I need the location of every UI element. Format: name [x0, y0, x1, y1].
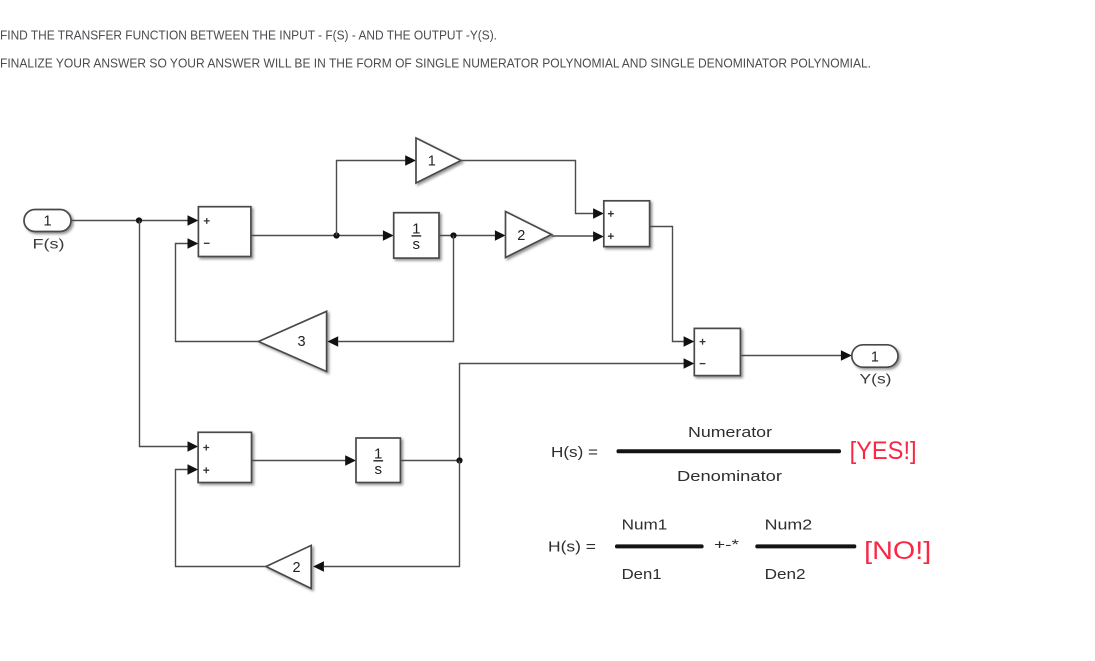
- wire G1 output to sum S2 first plus: [461, 161, 594, 214]
- wire F(s) to sum S1: [71, 220, 188, 222]
- wire G4 output to S4 second plus: [176, 470, 267, 567]
- svg-text:Y(s): Y(s): [860, 371, 892, 387]
- svg-text:3: 3: [297, 334, 305, 350]
- svg-text:Denominator: Denominator: [677, 468, 782, 485]
- wire I1 output to gain G2: [439, 235, 495, 237]
- svg-text:[YES!]: [YES!]: [850, 437, 917, 465]
- svg-text:Den1: Den1: [622, 566, 662, 583]
- svg-text:H(s) =: H(s) =: [551, 444, 598, 461]
- sum block S2: [604, 201, 650, 247]
- svg-text:F(s): F(s): [33, 236, 65, 252]
- arrowhead into S2 first plus: [593, 208, 604, 218]
- wire branch up to gain G1: [337, 161, 406, 236]
- input port 1 F(s): [24, 210, 71, 252]
- arrowhead into I2: [345, 455, 356, 465]
- arrowhead into S3 minus: [684, 358, 695, 368]
- node branch dot after F(s): [136, 217, 142, 223]
- svg-text:FIND THE TRANSFER FUNCTION BET: FIND THE TRANSFER FUNCTION BETWEEN THE I…: [0, 28, 497, 43]
- gain G4 value 2: [266, 545, 311, 588]
- svg-text:1: 1: [428, 153, 436, 169]
- svg-text:FINALIZE YOUR ANSWER SO YOUR A: FINALIZE YOUR ANSWER SO YOUR ANSWER WILL…: [0, 56, 871, 71]
- integrator I1 1/s: [394, 213, 439, 258]
- output port 1 Y(s): [852, 345, 898, 387]
- arrowhead into S4 second plus: [188, 464, 199, 474]
- svg-text:H(s) =: H(s) =: [548, 539, 596, 556]
- wire lower branch to S3 minus: [460, 364, 685, 461]
- formula 1 fraction bar: [617, 449, 842, 453]
- arrowhead into G1: [405, 155, 416, 165]
- integrator I2 1/s: [356, 438, 400, 483]
- wire S4 output to integrator I2: [252, 460, 346, 462]
- wire S1 output to integrator I1: [251, 235, 383, 237]
- svg-text:+-*: +-*: [714, 537, 740, 552]
- sum block S3: [694, 328, 740, 375]
- arrowhead into G4 (left pointing): [313, 561, 324, 571]
- arrowhead into S4 first plus: [188, 441, 199, 451]
- arrowhead into output port: [841, 350, 852, 360]
- gain G3 value 3: [259, 311, 327, 371]
- wire branch down to sum S4: [140, 221, 189, 447]
- formula 2 second fraction bar: [755, 544, 856, 548]
- wire S2 output to sum S3 plus: [650, 227, 684, 342]
- svg-text:2: 2: [517, 228, 525, 244]
- wire I2 output to branch node: [400, 460, 459, 462]
- wire S3 output to Y(s): [740, 355, 841, 357]
- arrowhead into S1 plus: [188, 215, 199, 225]
- node dot after S1: [333, 232, 339, 238]
- gain G2 value 2: [506, 212, 552, 258]
- svg-text:Num2: Num2: [765, 516, 813, 533]
- node dot after I2: [456, 457, 462, 463]
- wire branch down to gain G3: [338, 236, 453, 342]
- svg-text:Numerator: Numerator: [688, 424, 772, 441]
- wire G2 output to S2 second plus: [552, 235, 594, 237]
- svg-text:[NO!]: [NO!]: [864, 537, 931, 565]
- arrowhead into G2: [495, 230, 506, 240]
- wire G3 output to S1 minus: [176, 244, 259, 342]
- svg-text:s: s: [413, 236, 421, 253]
- arrowhead into S2 second plus: [593, 231, 604, 241]
- svg-text:1: 1: [412, 221, 420, 238]
- svg-text:s: s: [374, 461, 382, 478]
- gain G1 value 1: [416, 138, 461, 183]
- sum block S1: [198, 207, 251, 257]
- svg-text:Den2: Den2: [765, 566, 806, 583]
- arrowhead into G3 (left pointing): [327, 336, 338, 346]
- svg-text:1: 1: [871, 350, 879, 366]
- svg-text:1: 1: [374, 445, 382, 462]
- arrowhead into I1: [383, 230, 394, 240]
- formula 2 first fraction bar: [615, 544, 704, 548]
- arrowhead into S3 plus: [684, 336, 695, 346]
- wire branch down to gain G4: [324, 461, 460, 567]
- svg-text:Num1: Num1: [622, 516, 668, 533]
- svg-text:2: 2: [292, 560, 300, 576]
- node dot after I1: [450, 232, 456, 238]
- arrowhead into S1 minus: [188, 238, 199, 248]
- svg-text:1: 1: [43, 214, 51, 230]
- sum block S4: [198, 432, 251, 482]
